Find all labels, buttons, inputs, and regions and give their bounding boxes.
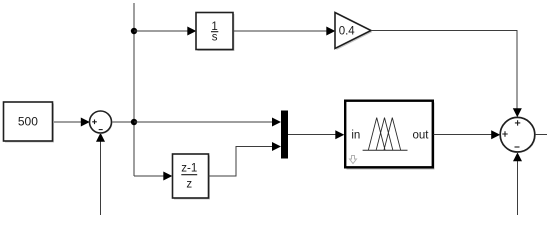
constant block 500 — [4, 102, 55, 143]
membership function baseline — [363, 149, 408, 151]
svg-text:z-1: z-1 — [181, 162, 197, 174]
svg-text:z: z — [186, 179, 192, 191]
wire: sum S1 output to branch node — [112, 121, 135, 123]
sum block S1 (circle, + -) — [90, 111, 113, 134]
wire: branch node to integrator 1/s — [134, 27, 196, 36]
svg-text:out: out — [413, 130, 430, 142]
wire: mux output to fuzzy controller input — [288, 130, 344, 139]
node: branch junction top — [131, 28, 137, 34]
wire: integrator 1/s to gain 0.4 — [233, 27, 335, 36]
wire: feedback input from bottom into sum S1 — [96, 133, 105, 215]
wire: branch node to mux input 1 — [134, 118, 281, 127]
svg-text:500: 500 — [18, 115, 38, 129]
membership triangle 3 — [384, 118, 401, 151]
node: branch junction middle — [131, 119, 137, 125]
sum block S2 (circle, + + -) — [500, 117, 536, 153]
wire: constant 500 output to sum S1 — [53, 118, 90, 127]
membership triangle 2 — [376, 118, 393, 151]
wire: branch line to discrete derivative input — [134, 172, 172, 181]
svg-text:0.4: 0.4 — [339, 26, 356, 38]
gain block 0.4 (triangle) — [335, 13, 373, 51]
wire: fuzzy controller output to sum S2 — [434, 130, 501, 139]
svg-text:s: s — [212, 32, 218, 44]
wire: discrete derivative output to mux input 2 — [209, 142, 282, 176]
wire: sum S2 output — [535, 134, 547, 136]
wire: branch vertical line x=134 — [133, 3, 135, 176]
svg-text:in: in — [351, 130, 360, 142]
wire: gain 0.4 output to sum S2 top input — [371, 31, 522, 118]
fuzzy logic controller block U1 — [345, 101, 434, 170]
mux block (black bar) — [281, 111, 288, 159]
badge: small gray down-arrow icon — [350, 156, 357, 164]
wire: bottom input to sum S2 — [513, 152, 522, 215]
discrete derivative block (z-1)/z — [173, 154, 211, 200]
membership triangle 1 — [368, 118, 385, 151]
integrator block 1/s — [196, 13, 235, 52]
